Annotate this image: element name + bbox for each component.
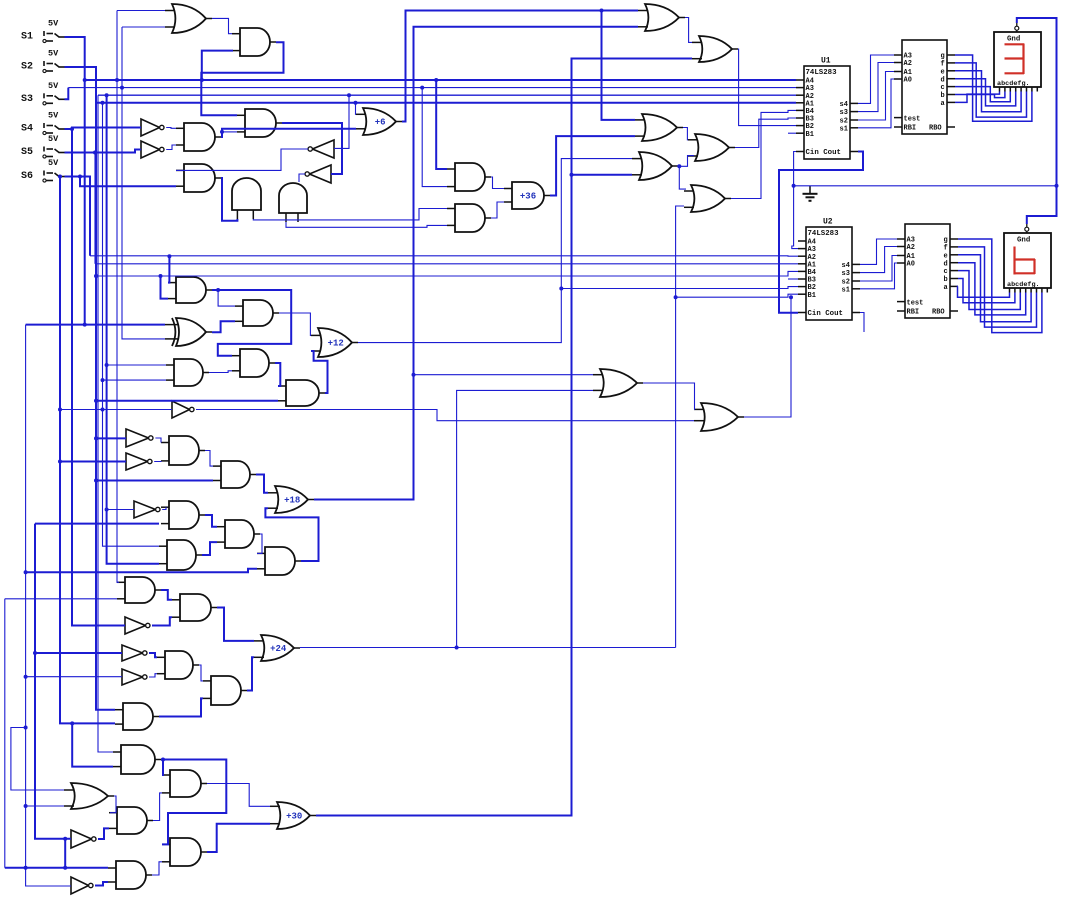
junction r122 bus2 [120,86,124,90]
wire U1.s1-A0 [858,79,894,128]
wire gnd to display2 [1027,186,1057,224]
and-gate G6 [237,109,282,137]
junction S1 xor-in [83,323,87,327]
wire G17 to U1.B2 [738,49,796,126]
switch S5 [43,134,65,158]
rail x102 [103,103,160,546]
wire +12 out [358,159,632,343]
wire G56-G55 [152,862,162,875]
svg-text:RBO: RBO [929,125,942,133]
rail x10 [11,728,64,791]
svg-text:b: b [941,92,945,100]
junction S2 G33 [94,479,98,483]
or-gate G20 [632,152,678,180]
wire segment1 f [955,63,1027,117]
wire U1.Cout to U2.Cin [779,152,863,313]
or-gate G54 +30 [270,802,316,829]
wire G22-G23 [218,290,235,306]
wire G41-G43 [217,608,254,641]
wire G31-G32 [154,460,161,463]
wire U2.s1-A0 [860,263,897,289]
and-gate G56 [108,861,152,889]
wire G1-G2 [212,18,232,33]
svg-text:Cin Cout: Cin Cout [806,149,841,157]
and-gate G14 [447,204,491,232]
junction S6 G7 [78,175,82,179]
and-gate G48 [115,703,159,730]
wire +24 to G58 in2 [457,390,593,647]
wire G46 feed [26,676,122,678]
switch S2 [43,49,65,73]
svg-text:+12: +12 [328,339,344,349]
and-gate G41 [172,594,217,621]
svg-text:5V: 5V [48,134,59,144]
svg-text:S6: S6 [21,171,33,182]
inverter G60 [172,401,194,418]
wire G32-G33 [205,451,213,467]
or-gate G58 [593,369,643,397]
svg-text:S3: S3 [21,94,33,105]
svg-text:B1: B1 [808,292,816,300]
wire G44-G45 [149,653,157,657]
svg-text:s3: s3 [840,109,848,117]
junction bus4 r102 [101,101,105,105]
svg-text:f: f [941,61,945,69]
wire U1.s4-A3 [858,55,894,103]
junction bus2 r422 [420,86,424,90]
and-gate G25 [232,349,275,377]
junction S2 G27 [94,399,98,403]
junction S6rail x72 [70,721,74,725]
wire x4 G40 [5,598,117,600]
junction busA2 r169 [167,254,171,258]
and-gate G5 [176,123,221,151]
and-gate G15 +36 [504,182,550,209]
svg-text:e: e [944,252,948,260]
svg-text:s2: s2 [842,279,850,287]
and-gate G40 [117,577,161,603]
riser G53 gnd [64,839,66,868]
wire segment2 b [958,279,1015,303]
junction busB4 r160 [159,274,163,278]
wire segment1 d [955,79,1016,106]
rail x106 [107,95,159,564]
wire G40-G41 [161,590,172,600]
and-gate G50 [162,770,207,797]
svg-text:B1: B1 [806,131,814,139]
junction S2 busB4 [94,274,98,278]
wire U2.s2-A1 [860,256,897,282]
wire G8-G14 [253,209,447,220]
wire G20 junction [678,156,694,167]
wire G23 to +12 [279,313,311,335]
junction G59 B1 [789,295,793,299]
junction +18 G58 [412,373,416,377]
rail x4 [4,599,6,868]
or-gate G43 +24 [254,635,300,661]
riser G12 in1 [355,103,358,115]
wire G49-G50 [162,760,163,776]
wire G50-G54 [207,784,270,807]
label S6 [21,171,33,182]
label S5 [21,147,33,158]
svg-text:e: e [941,68,945,76]
or-gate G19 [688,134,735,161]
svg-text:5V: 5V [48,49,59,59]
adder U2 74LS283 [798,218,860,321]
wire U1.s2-A1 [858,72,894,121]
rail x122 [122,27,165,339]
wire G58-G59 [643,383,695,409]
wire G60 out to G59 [196,410,694,421]
wire G37-G39 [257,534,262,553]
rail x35 [35,524,71,839]
inverter G31 [126,453,152,470]
wire G16-G17 [685,18,692,43]
riser G13 in1 [436,80,447,169]
or-gate G28 +12 [311,328,358,357]
junction r25 y868 [24,866,28,870]
wire G2 loop to G6 [201,42,283,115]
or-gate G21 [684,185,731,212]
and-gate G13 [447,163,491,191]
xor-gate G24 [165,318,212,346]
svg-text:RBI: RBI [907,309,920,317]
inverter G53 [71,830,96,848]
junction r25 y573 [24,570,28,574]
and-gate G26 [166,359,209,386]
wire segment1 b [955,92,1005,98]
svg-text:c: c [944,268,948,276]
7-seg decoder X2 [897,224,958,318]
svg-text:+24: +24 [270,644,287,654]
svg-text:U1: U1 [821,57,831,66]
or-gate G16 [638,4,685,31]
wire G26 in2 feed [103,379,167,381]
wire G25-G27 [275,363,280,386]
rail x25 [26,325,71,886]
wire segment1 a [955,92,1000,103]
wire S1 to rail [65,37,85,325]
wire G27 to +12 in2 [311,351,328,393]
wire G5-G6 [222,131,237,133]
wire +12 to U2.B2 [561,287,798,289]
svg-text:5V: 5V [48,158,59,168]
wire G13-G15 [491,177,504,189]
wire G30 feed [96,437,126,439]
junction +12 B2 [559,287,563,291]
and-gate G55 [162,838,207,866]
wire G7-G8 [221,178,237,221]
wire segment2 c [958,271,1020,310]
svg-text:f: f [944,245,948,253]
wire G57-G56 [95,882,108,886]
wire G27 in2 feed [96,400,278,402]
bus U2.B4 [96,271,798,276]
wire G51 in2 feed [26,805,64,807]
junction r25 G51 [24,804,28,808]
wire G26-G25 [209,371,232,373]
junction G20 out [677,164,681,168]
wire G31 feed [60,461,126,463]
wire G5 to +6 in2 [221,129,356,137]
bus A3 [68,87,796,89]
junction gnd rail left [792,184,796,188]
svg-text:c: c [941,84,945,92]
wire U1.Cin gnd [792,152,798,249]
svg-text:A2: A2 [904,60,912,68]
wire to G21 in1 [679,166,686,189]
svg-text:s4: s4 [842,262,850,270]
inverter G35 [134,501,160,518]
adder U1 74LS283 [796,57,858,160]
wire G35 feed [107,509,134,511]
7-seg display D2 showing b [1004,224,1051,293]
label S3 [21,94,33,105]
switch S6 [43,158,65,182]
wire segment2 f [958,247,1037,327]
inverter G10 [308,140,334,158]
wire G19 to U1.B3 [735,118,796,148]
wire x35 rail [35,523,159,525]
and-gate G52 [109,807,153,834]
svg-text:A0: A0 [907,261,915,269]
and-gate G33 [213,461,256,488]
or-gate G59 [694,403,744,431]
wire G24 in1 long [26,324,165,326]
bus U2.A1 [95,263,798,265]
wire G52-G50 [153,793,162,821]
wire segment1 e [955,71,1021,112]
junction r25 G46 [24,675,28,679]
or-gate G12 +6 [356,108,402,135]
junction +6 branch [600,9,604,13]
wire G60 feed [60,409,172,411]
junction +24 U2B1 [674,295,678,299]
svg-text:U2: U2 [823,218,833,227]
svg-text:g: g [944,237,948,245]
wire branch to G18 [602,11,636,120]
wire U2.B3 stub [788,278,798,280]
wire G1 in2 [122,26,165,28]
svg-text:abcdefg.: abcdefg. [1007,281,1040,289]
and-gate G22 [168,277,212,303]
svg-text:test: test [907,300,924,308]
junction +30 G20 [570,173,574,177]
wire rail x72b [72,723,113,766]
wire G39 wrap to +18 [265,508,318,561]
svg-text:S5: S5 [21,147,33,158]
and-gate G39 [257,547,301,575]
svg-text:S4: S4 [21,124,33,135]
wire +36 out [550,136,635,195]
wire U1.B1 stub [788,132,796,134]
junction G5 +6 [220,130,224,134]
junction r25 hook [24,726,28,730]
junction bus1 r436 [434,78,438,82]
bus A4 [85,79,796,81]
wire S6 [65,177,91,256]
svg-text:Gnd: Gnd [1007,36,1020,44]
and-gate G8 [232,178,261,219]
inverter G4 [141,141,164,158]
junction G49 out [161,758,165,762]
wire to G58 in1 [414,374,594,376]
wire G44 feed [35,652,122,654]
bus A2 [98,94,796,96]
junction S1 bus1 [83,78,87,82]
wire G46-G45 [149,674,157,677]
inverter G3 [141,119,164,136]
wire G4-G5 [166,145,176,150]
label S1 [21,32,33,43]
svg-text:s3: s3 [842,270,850,278]
svg-text:s1: s1 [840,125,848,133]
svg-text:74LS283: 74LS283 [806,69,838,77]
bus U2.A2 [90,255,798,257]
wire G55-G54 [207,824,270,852]
riser G2 in2 [202,51,233,80]
wire G1 in1 [117,10,165,12]
wire G51-G52 [110,796,116,813]
svg-text:5V: 5V [48,111,59,121]
wire +6 out [402,11,638,122]
or-gate G51 [64,783,114,809]
inverter G57 [71,877,93,894]
switch S3 [43,81,65,105]
junction S5 r95 [93,151,97,155]
junction r117 bus1 [115,78,119,82]
junction r102 G26 [101,378,105,382]
junction S6 rail [58,175,62,179]
junction riser y868 [63,866,67,870]
or-gate G1 [165,4,212,33]
junction S6 G60 [58,408,62,412]
riser G22 in2 [161,276,169,299]
svg-text:+30: +30 [286,812,302,822]
svg-text:+36: +36 [520,192,536,202]
junction bus4 r355 [354,101,358,105]
wire S5 [65,150,142,153]
wire G48-G47 [159,698,203,716]
wire U2.Cout [860,313,864,333]
or-gate G18 [635,114,683,141]
wire x4 G56 [5,867,108,869]
wire +24 to U2.B1 [676,294,798,297]
junction G22 out [216,288,220,292]
wire +30 out [316,59,692,816]
wire segment1 c [955,87,1010,102]
svg-text:RBI: RBI [904,125,917,133]
wire G3-G5 [166,127,176,130]
ground [803,186,818,201]
wire G21 to U1.B4 [731,110,796,198]
7-seg decoder X1 [894,40,955,134]
wire U2.s3-A2 [860,247,897,273]
wire G38-G37 [202,542,217,555]
svg-text:abcdefg.: abcdefg. [997,80,1030,88]
wire G33-G34 [256,475,268,493]
ground rail [794,185,1057,187]
riser busA1 [94,153,96,264]
wire G36-G37 [205,515,217,527]
wire segment2 d [958,263,1026,315]
wire G6 out to G11 [282,123,342,174]
rail x117 [117,11,119,583]
inverter G30 [126,429,153,447]
svg-text:+6: +6 [375,118,386,128]
label S4 [21,124,33,135]
wire S3 to bus2 [65,88,69,100]
and-gate G45 [157,651,199,679]
svg-text:S1: S1 [21,32,33,43]
svg-text:s2: s2 [840,118,848,126]
wire S2 rail [65,67,116,710]
svg-text:A0: A0 [904,77,912,85]
junction r102 G60 [101,408,105,412]
wire G59 riser [744,297,791,417]
svg-text:Cin Cout: Cin Cout [808,310,843,318]
wire +18 out [314,27,638,500]
wire rail x72 [72,129,125,626]
svg-text:5V: 5V [48,81,59,91]
wire G35-G36 [162,507,166,509]
junction bus3 r349 [347,93,351,97]
wire +24 riser right [676,206,684,648]
riser G22 in1 [168,256,169,282]
junction bus3 r106 [105,93,109,97]
wire G53-G52 [98,828,109,839]
wire G45-G47 [199,665,203,681]
wire to G20 in2 [572,174,633,176]
wire segment2 e [958,255,1031,322]
wire +24 out [300,647,676,649]
junction r106 G35 [105,508,109,512]
junction gnd rail right [1055,184,1059,188]
junction G53 riser [63,837,67,841]
and-gate G38 [159,540,202,570]
wire G22 out snake [212,290,291,356]
wire G14-G15 [491,202,504,218]
wire G18-G19 [683,128,688,140]
wire S6 to G7 [80,177,176,187]
wire U2.s4-A3 [860,239,897,264]
svg-text:Gnd: Gnd [1017,237,1030,245]
wire segment1 g [955,55,1032,121]
and-gate G37 [217,520,260,548]
and-gate G7 [176,164,221,192]
svg-text:s1: s1 [842,286,850,294]
wire G11 out to G9 [299,174,305,182]
switch S4 [43,111,65,135]
or-gate G17 [692,36,738,62]
and-gate G49 [113,745,161,774]
wire segment2 a [958,286,1010,297]
and-gate G2 [232,28,276,56]
junction S4 rail [70,127,74,131]
wire G47-G43 [247,657,254,690]
wire S6 rail [60,177,115,724]
inverter G42 [125,617,150,634]
wire G26 in1 feed [107,364,166,366]
wire display1 gnd [1017,18,1057,186]
svg-text:test: test [904,116,921,124]
wire G10 out to G7 [176,149,308,170]
and-gate G27 [278,380,325,406]
junction r35 G44 [33,651,37,655]
inverter G46 [122,669,147,685]
wire G9-G14 [286,222,447,227]
